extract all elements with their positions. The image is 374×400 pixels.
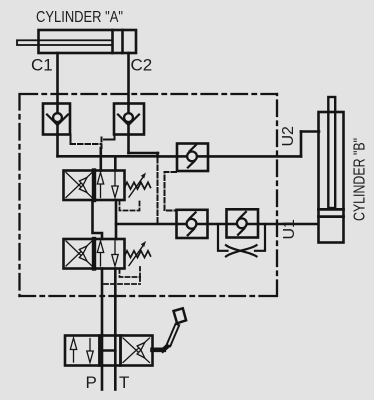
wire C2 to line <box>127 135 130 154</box>
node T label <box>119 373 129 392</box>
wire tick <box>156 153 159 156</box>
valve DCV2 <box>64 239 151 277</box>
check valve CVH3 <box>227 209 259 237</box>
valve HV bottom <box>65 336 153 366</box>
arrow over spring DCV1 <box>129 173 146 198</box>
cylinder A <box>39 30 137 53</box>
node C2 label <box>131 56 153 75</box>
check valve CVH2 <box>177 210 208 238</box>
arrow over spring DCV2 <box>129 241 146 266</box>
pilot line CV2 step <box>109 135 115 140</box>
lever handle <box>153 308 187 350</box>
node P label <box>86 373 97 392</box>
svg-text:T: T <box>119 373 129 392</box>
svg-text:CYLINDER "A": CYLINDER "A" <box>36 9 123 26</box>
node U1 label <box>281 219 298 240</box>
pilot U DCV1 <box>120 199 140 211</box>
wire row line U1 <box>116 223 318 226</box>
pilot dashed CVH1 to CVH2 <box>165 172 177 211</box>
check valve CVH1 <box>177 144 208 172</box>
wire feeder P to DCV1 <box>100 148 103 171</box>
H bar center box <box>101 336 104 366</box>
wire DCV1 out B <box>115 200 118 239</box>
wire U2 to cylinder B <box>301 130 319 133</box>
spring DCV1 <box>125 182 151 189</box>
wire line C2 to check valve <box>129 152 159 155</box>
wire C2 drop <box>127 53 130 104</box>
spring DCV2 <box>125 251 151 258</box>
wire C1 drop <box>56 53 59 104</box>
svg-text:CYLINDER "B": CYLINDER "B" <box>352 138 369 221</box>
valve DCV1 <box>64 171 151 211</box>
node U2 label <box>280 126 297 147</box>
wire C1 to rail <box>56 135 59 157</box>
pilot dashed drop V1 <box>157 158 159 224</box>
cylinder B label <box>352 138 369 221</box>
restrictor orifice <box>226 245 257 256</box>
check valve CV1 <box>43 104 70 135</box>
pilot line CV1 <box>70 135 72 143</box>
pilot dashed DCV2 drop <box>139 277 141 284</box>
wire P below valve <box>101 366 104 390</box>
check valve CV2 <box>114 104 144 135</box>
wire T line down <box>114 269 117 336</box>
pilot line dashed cross <box>71 143 102 145</box>
svg-text:P: P <box>86 373 97 392</box>
pilot U DCV2 <box>120 267 141 277</box>
manifold boundary <box>20 94 278 296</box>
wire CVH1 to U2 riser <box>208 155 301 158</box>
svg-text:U1: U1 <box>281 219 298 240</box>
svg-text:C1: C1 <box>31 56 53 75</box>
wire feeder T to DCV1 <box>114 156 117 170</box>
svg-text:U2: U2 <box>280 126 297 147</box>
wire T below valve <box>114 366 117 390</box>
cylinder B <box>319 97 344 243</box>
cylinder A label <box>36 9 123 26</box>
wire jog DCV1 to DCV2 <box>93 200 103 239</box>
wire U2 riser <box>300 132 303 157</box>
wire P line down <box>101 269 104 336</box>
wire rail C1 <box>58 155 159 158</box>
wire bypass loop <box>218 224 265 251</box>
node C1 label <box>31 56 53 75</box>
svg-text:C2: C2 <box>131 56 153 75</box>
